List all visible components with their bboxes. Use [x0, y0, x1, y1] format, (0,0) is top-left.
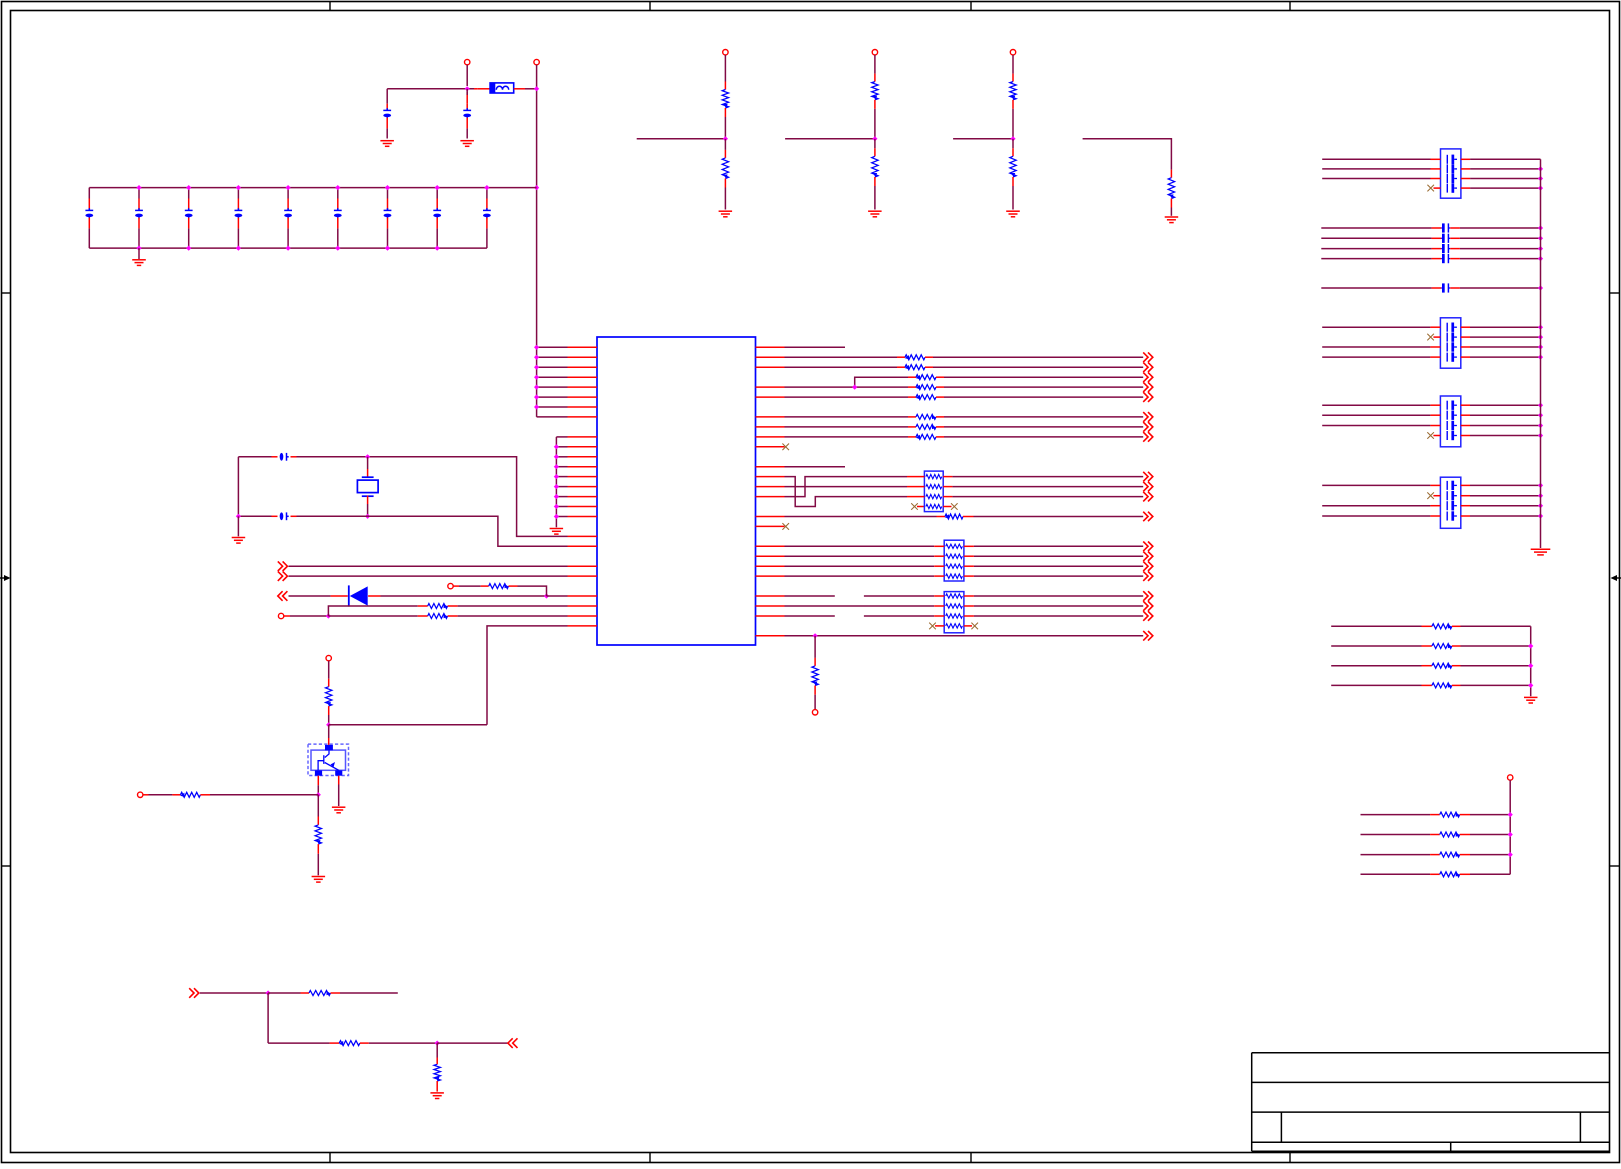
pin r27 — [756, 615, 785, 617]
wire — [1461, 425, 1470, 427]
wire — [1461, 515, 1470, 517]
port chevron bottom out — [508, 1038, 518, 1048]
wire — [237, 516, 239, 536]
wire — [785, 575, 935, 577]
wire — [1461, 625, 1531, 627]
terminal collector — [326, 655, 331, 660]
pin 2 — [537, 356, 568, 358]
wire — [785, 366, 898, 368]
junction — [872, 136, 877, 141]
resistor R17 — [812, 666, 818, 686]
resistor R26 — [1361, 854, 1431, 856]
pin r21 — [756, 555, 785, 557]
pin 21 — [568, 545, 598, 547]
wire — [936, 386, 944, 388]
wire pulldown — [814, 636, 816, 658]
terminal — [812, 710, 817, 715]
resistor R11 — [326, 687, 332, 706]
wire — [1461, 414, 1470, 416]
wire — [785, 416, 909, 418]
wire — [1461, 326, 1470, 328]
wire — [437, 1042, 508, 1044]
wire — [1470, 814, 1510, 816]
resistor — [916, 434, 936, 439]
wire — [200, 794, 210, 796]
pin 8 — [537, 416, 568, 418]
wire cap rail — [1540, 159, 1542, 548]
wire gapped — [785, 595, 835, 597]
wire — [448, 605, 458, 607]
junctions column — [534, 345, 539, 350]
junctions rail — [1538, 325, 1543, 330]
terminal — [872, 50, 877, 55]
capacitor C11 — [486, 188, 488, 199]
ground cap rail — [1531, 549, 1551, 555]
port chevron — [1143, 591, 1153, 601]
pin r12 stub — [756, 466, 785, 468]
port chevron — [1143, 392, 1153, 402]
resistor — [1010, 156, 1016, 177]
terminal pull-up rail — [1508, 775, 1513, 780]
wire — [1470, 834, 1510, 836]
pin 6 — [537, 396, 568, 398]
port chevron — [1143, 382, 1153, 392]
capacitor C13 — [280, 512, 284, 520]
junction — [326, 613, 331, 618]
wire branch row — [855, 377, 908, 387]
wire — [724, 139, 726, 150]
wire — [1461, 168, 1470, 170]
junction — [1538, 256, 1543, 261]
junction — [1538, 236, 1543, 241]
pin 13 — [556, 466, 567, 468]
junction — [326, 722, 331, 727]
wire xtal bottom rail — [238, 515, 271, 517]
pin 7 — [537, 406, 568, 408]
wire gapped — [785, 615, 835, 617]
resistor R8 — [489, 584, 509, 589]
pin 28 — [568, 615, 598, 617]
wire — [289, 575, 568, 577]
resistor — [722, 90, 728, 109]
wire — [1461, 336, 1470, 338]
capacitor C10 — [436, 188, 438, 199]
junction — [266, 990, 271, 995]
pin r22 — [756, 565, 785, 567]
wire emitter — [338, 776, 340, 785]
pin 14 — [556, 476, 567, 478]
wire crossover a — [785, 477, 908, 507]
wire — [724, 108, 726, 117]
port chevron — [1143, 571, 1153, 581]
capacitor C22 — [1321, 248, 1431, 250]
wire — [436, 1081, 438, 1092]
wire — [974, 605, 1143, 607]
capacitor C6 — [237, 188, 239, 199]
capacitor network CN3 — [1440, 396, 1460, 447]
wire — [785, 436, 909, 438]
wire — [936, 376, 944, 378]
junctions rail — [1538, 403, 1543, 408]
wire — [785, 356, 898, 358]
resistor network RN2 — [944, 540, 964, 581]
pin 24 — [568, 575, 598, 577]
no-connect — [1427, 492, 1434, 499]
junction — [365, 514, 370, 519]
wire — [785, 396, 909, 398]
port chevron — [1143, 561, 1153, 571]
wire — [974, 615, 1143, 617]
wire — [368, 457, 568, 537]
wire — [785, 426, 909, 428]
wire — [200, 992, 268, 994]
port chevron — [1143, 362, 1153, 372]
transistor Q1 — [308, 744, 349, 775]
resistor — [722, 158, 728, 179]
capacitor C4 — [138, 188, 140, 199]
wire — [1322, 168, 1430, 170]
ground — [1524, 697, 1538, 703]
wire — [1461, 665, 1531, 667]
junction — [1010, 136, 1015, 141]
ground pin column — [550, 529, 564, 535]
junction — [534, 86, 539, 91]
wire — [785, 486, 908, 488]
terminal P1 — [465, 59, 470, 64]
wire — [1461, 346, 1470, 348]
wire — [1170, 199, 1172, 208]
wire — [1470, 854, 1510, 856]
pin 18 — [556, 516, 567, 518]
ground — [380, 141, 394, 147]
junction — [544, 593, 549, 598]
wire — [974, 565, 1143, 567]
border zone ticks bottom — [329, 1153, 331, 1163]
wire — [1322, 356, 1430, 358]
resistor — [872, 156, 878, 177]
wire — [1322, 346, 1430, 348]
junctions column mid — [554, 444, 559, 449]
wire — [1461, 178, 1470, 180]
wire — [1461, 495, 1470, 497]
wire xtal left — [237, 457, 239, 517]
wire — [448, 615, 458, 617]
port chevron — [1143, 601, 1153, 611]
resistor R27 — [1361, 873, 1431, 875]
resistor R7 — [1168, 178, 1174, 199]
wire — [874, 100, 876, 109]
pin 5 — [537, 386, 568, 388]
terminal — [723, 50, 728, 55]
port chevron — [1143, 542, 1153, 552]
wire — [974, 545, 1143, 547]
resistor R21 — [1331, 645, 1421, 647]
port chevron in 1 — [278, 561, 288, 571]
junctions — [1508, 812, 1513, 817]
junction — [852, 385, 857, 390]
wire — [1461, 684, 1531, 686]
junction — [435, 1041, 440, 1046]
border center arrow left — [0, 577, 4, 579]
wire — [1322, 326, 1430, 328]
junction — [465, 86, 470, 91]
junctions rail — [1538, 166, 1543, 171]
pin r5 — [756, 386, 785, 388]
capacitor C24 — [1321, 287, 1431, 289]
wire branch — [328, 606, 417, 616]
resistor R23 — [1331, 684, 1421, 686]
pin r25 — [756, 595, 785, 597]
wire — [1012, 177, 1014, 186]
ground — [1006, 211, 1020, 217]
wire — [331, 992, 341, 994]
wire — [974, 595, 1143, 597]
pin 12 — [556, 456, 567, 458]
terminal input — [278, 613, 283, 618]
terminal — [1010, 50, 1015, 55]
pin 26 — [547, 595, 568, 597]
resistor R10 — [428, 614, 448, 619]
ground — [430, 1093, 444, 1099]
wire — [360, 1042, 369, 1044]
wire — [329, 724, 487, 726]
junctions rail — [1538, 483, 1543, 488]
resistor — [905, 365, 925, 370]
pin r29 — [756, 635, 785, 637]
resistor R20 — [1331, 625, 1421, 627]
wire main vertical — [536, 65, 538, 417]
capacitor C7 — [287, 188, 289, 199]
port chevron — [1143, 631, 1153, 641]
wire — [381, 595, 547, 597]
pin 17 — [556, 506, 567, 508]
pin r10 no-connect — [756, 446, 785, 448]
ground — [312, 877, 326, 883]
wire stub — [637, 138, 726, 140]
resistor network RN3 — [944, 592, 964, 633]
wire — [963, 516, 974, 518]
wire — [874, 55, 876, 74]
wire — [936, 436, 944, 438]
wire — [289, 595, 331, 597]
wire rail — [1530, 626, 1532, 696]
wire bypass top rail — [89, 187, 536, 189]
wire — [1461, 505, 1470, 507]
wire — [785, 565, 935, 567]
wire — [814, 686, 816, 695]
junction — [1538, 285, 1543, 290]
port chevron — [1143, 352, 1153, 362]
resistor R16 — [434, 1064, 440, 1081]
port chevron — [1143, 512, 1153, 522]
wire — [1461, 645, 1531, 647]
wire — [267, 993, 269, 1043]
ferrite bead L1 — [478, 88, 490, 90]
wire — [368, 516, 568, 546]
terminal base input — [138, 792, 143, 797]
resistor R13 — [315, 825, 321, 844]
wire — [1012, 55, 1014, 74]
wire — [268, 992, 300, 994]
wire — [1461, 187, 1470, 189]
pin r1 — [756, 356, 785, 358]
terminal pullup — [448, 583, 453, 588]
pin r14 — [756, 486, 785, 488]
wire — [284, 615, 290, 617]
port chevron — [1143, 412, 1153, 422]
junction — [534, 185, 539, 190]
junctions bypass bottom rail — [136, 246, 141, 251]
junction — [1538, 246, 1543, 251]
pin r7 — [756, 416, 785, 418]
capacitor C23 — [1321, 258, 1431, 260]
capacitor C21 — [1321, 237, 1431, 239]
wire stub — [953, 138, 1013, 140]
junction — [236, 514, 241, 519]
port chevrons RN1 — [1143, 472, 1153, 482]
wire — [1470, 873, 1510, 875]
no-connect RN1 row4 left — [911, 503, 918, 510]
pin r9 — [756, 436, 785, 438]
IC U1 — [597, 337, 756, 645]
border zone ticks right — [1610, 292, 1620, 294]
wire — [974, 575, 1143, 577]
pin 20 — [568, 535, 598, 537]
resistor network RN1 — [924, 471, 943, 512]
pin 10 — [556, 436, 567, 438]
wire — [1012, 139, 1014, 149]
wire — [785, 555, 935, 557]
wire stub — [785, 138, 875, 140]
wire — [925, 356, 933, 358]
port chevron — [1143, 552, 1153, 562]
wire — [143, 794, 149, 796]
capacitor network CN4 — [1440, 477, 1460, 528]
wire — [1322, 414, 1430, 416]
port chevron out 1 — [278, 591, 288, 601]
resistor R24 — [1361, 814, 1431, 816]
wire — [466, 65, 468, 86]
wire pin column left mid — [555, 437, 557, 527]
pin 31 stub — [756, 346, 785, 348]
wire — [785, 516, 937, 518]
no-connect — [1427, 432, 1434, 439]
pin 27 — [568, 605, 598, 607]
wire — [1461, 484, 1470, 486]
no-connect RN3 row4 right — [964, 625, 972, 627]
wire — [1461, 356, 1470, 358]
diode D1 — [348, 585, 350, 606]
capacitor C3 — [88, 188, 90, 199]
resistor R9 — [428, 604, 448, 609]
wire — [1083, 139, 1172, 170]
title block — [1252, 1053, 1610, 1152]
ground — [868, 211, 882, 217]
pin r26 — [756, 605, 785, 607]
wire xtal top rail — [238, 456, 271, 458]
junctions bypass top rail — [136, 185, 141, 190]
junction — [316, 792, 321, 797]
wire — [1322, 404, 1430, 406]
resistor — [872, 82, 878, 100]
capacitor C1 — [386, 89, 388, 104]
border zone ticks top — [329, 2, 331, 11]
resistor — [916, 414, 936, 419]
pin r23 — [756, 575, 785, 577]
pin 3 — [537, 366, 568, 368]
port chevron in 2 — [278, 571, 288, 581]
wire — [1322, 158, 1430, 160]
wire — [453, 585, 459, 587]
pin r13 — [756, 476, 785, 478]
pin r5 — [756, 396, 785, 398]
junction — [723, 136, 728, 141]
wire — [328, 615, 417, 617]
wire — [974, 555, 1143, 557]
pin r18 no-connect — [756, 525, 785, 527]
ground — [719, 211, 733, 217]
wire — [1461, 158, 1470, 160]
capacitor C5 — [188, 188, 190, 199]
capacitor network CN1 — [1441, 149, 1461, 198]
port chevron — [1143, 611, 1153, 621]
wire from transistor — [487, 626, 568, 725]
resistor — [1010, 82, 1016, 100]
ground — [460, 141, 474, 147]
RN1 right leads — [943, 476, 952, 478]
no-connect — [1427, 185, 1434, 192]
wire — [509, 585, 518, 587]
wire — [328, 706, 330, 715]
ground — [232, 538, 246, 544]
capacitor C9 — [387, 188, 389, 199]
junctions — [1528, 643, 1533, 648]
border center arrow right — [1617, 577, 1621, 579]
wire — [1322, 505, 1430, 507]
wire — [1322, 178, 1430, 180]
wire — [936, 416, 944, 418]
pin 11 — [556, 446, 567, 448]
resistor R12 — [180, 792, 200, 797]
wire — [289, 565, 568, 567]
pin 4 — [537, 376, 568, 378]
pin r2 — [756, 366, 785, 368]
capacitor C2 — [466, 92, 468, 104]
no-connect RN1 row4 right — [943, 506, 951, 508]
wire — [724, 179, 726, 188]
wire rail — [1509, 780, 1511, 874]
port chevron bottom in — [189, 988, 199, 998]
wire — [874, 177, 876, 186]
wire — [785, 386, 909, 388]
wire — [436, 1043, 438, 1057]
pin 29 — [568, 625, 598, 627]
pin r15 — [756, 496, 785, 498]
no-connect RN3 row4 left — [929, 623, 936, 630]
wire — [874, 139, 876, 149]
wire — [1322, 484, 1430, 486]
wire base — [317, 776, 319, 786]
wire — [1461, 404, 1470, 406]
wire — [387, 88, 474, 90]
terminal P2 — [534, 59, 539, 64]
pin 16 — [556, 496, 567, 498]
border zone ticks left — [2, 292, 11, 294]
wire bypass bottom rail — [89, 247, 487, 249]
resistor — [945, 514, 963, 519]
resistor — [916, 424, 936, 429]
pin 23 — [568, 565, 598, 567]
